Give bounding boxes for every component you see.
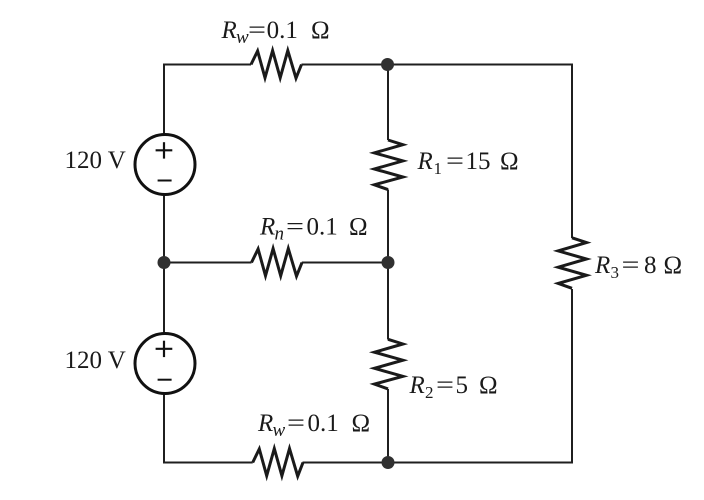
voltage source V2 (120 V) — [135, 334, 195, 394]
svg-text:R1=15Ω: R1=15Ω — [417, 148, 519, 178]
wire middle horizontal left of Rn — [164, 262, 252, 264]
node C (center junction) — [382, 256, 395, 269]
svg-text:R3=8Ω: R3=8Ω — [594, 252, 682, 282]
wire top-right horizontal segment — [302, 64, 573, 66]
wire right rail R3 to bottom corner — [571, 289, 573, 464]
V1 minus sign — [158, 180, 172, 182]
resistor Rn (middle) — [252, 249, 303, 277]
svg-text:120 V: 120 V — [65, 147, 126, 174]
wire middle horizontal right of Rn — [302, 262, 388, 264]
wire left rail between node B and source V2 — [163, 263, 165, 334]
wire left rail top (corner to source V1) — [163, 64, 165, 135]
wire bottom right of Rw2 — [303, 462, 573, 464]
resistor Rw (bottom) — [253, 449, 303, 477]
wire bottom left of Rw2 — [164, 462, 253, 464]
svg-text:R2=5Ω: R2=5Ω — [409, 372, 498, 402]
wire middle rail R1 to node C — [387, 190, 389, 263]
wire middle rail R2 to node D — [387, 389, 389, 463]
svg-text:120 V: 120 V — [65, 347, 126, 374]
node B (left middle junction) — [158, 256, 171, 269]
resistor R3 — [558, 238, 586, 288]
wire middle rail node C to R2 — [387, 263, 389, 340]
node A (top middle junction) — [381, 58, 394, 71]
wire middle rail node A to R1 — [387, 65, 389, 141]
V2 plus sign — [156, 341, 173, 357]
wire left rail between V1 and node B — [163, 196, 165, 263]
node D (bottom middle junction) — [382, 456, 395, 469]
wire top-left horizontal segment — [164, 64, 251, 66]
wire left rail bottom (V2 to bottom wire) — [163, 395, 165, 464]
voltage source V1 (120 V) — [135, 135, 195, 195]
V1 plus sign — [156, 142, 173, 158]
V2 minus sign — [158, 379, 172, 381]
wire right rail top corner to R3 — [571, 64, 573, 239]
resistor R2 — [374, 339, 403, 389]
resistor Rw (top) — [251, 51, 302, 79]
resistor R1 — [374, 140, 403, 190]
